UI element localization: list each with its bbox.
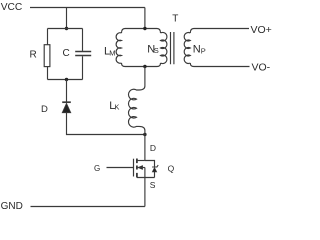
node RC box top junction <box>65 27 68 30</box>
MOSFET channel bars <box>136 159 138 178</box>
svg-text:D: D <box>41 104 48 115</box>
wire RC box left (resistor branch) <box>47 29 49 80</box>
svg-text:Q: Q <box>168 164 175 174</box>
wire RC box bottom <box>48 79 83 81</box>
diode D triangle <box>62 103 71 112</box>
capacitor C plates <box>75 52 91 56</box>
MOSFET body/source middle horizontal <box>137 167 145 169</box>
svg-text:K: K <box>114 103 119 112</box>
wire RC box top <box>48 28 83 30</box>
diode D cathode bar <box>62 101 71 103</box>
body diode triangle <box>152 168 156 172</box>
svg-text:D: D <box>150 143 156 153</box>
wire RC box right (capacitor branch) <box>82 29 84 80</box>
MOSFET source horizontal <box>137 177 155 179</box>
svg-text:P: P <box>201 46 206 55</box>
wire VCC rail <box>30 7 145 9</box>
svg-text:M: M <box>109 48 115 57</box>
wire VO- lead <box>190 63 249 67</box>
inductor LM winding (magnetizing) <box>116 33 121 64</box>
node winding pair top junction <box>143 27 146 30</box>
wire VCC rail down to transformer primary top <box>144 8 146 29</box>
transformer core <box>171 32 174 64</box>
svg-text:VO+: VO+ <box>251 24 272 36</box>
MOSFET drain horizontal <box>137 160 145 162</box>
svg-text:T: T <box>172 14 178 25</box>
svg-text:S: S <box>150 180 156 190</box>
wire diode anode down and right to drain node <box>67 113 145 135</box>
wire VCC tap down to RC snubber <box>66 8 68 29</box>
svg-text:R: R <box>30 50 37 61</box>
wire source to GND rail <box>144 178 146 207</box>
svg-text:C: C <box>63 48 70 59</box>
MOSFET body arrow <box>138 166 143 170</box>
wire gate lead <box>107 167 134 169</box>
wire VO+ lead <box>190 29 249 34</box>
svg-text:VO-: VO- <box>252 61 271 73</box>
wire winding pair bottom <box>122 63 161 67</box>
wire winding pair top <box>122 29 161 34</box>
wire middle tie to source <box>144 168 146 178</box>
node RC box bottom junction <box>65 78 68 81</box>
wire LK bottom to drain node <box>144 131 146 135</box>
MOSFET gate bar <box>133 159 135 177</box>
body diode branch top <box>145 161 155 168</box>
body diode branch bottom <box>154 172 156 178</box>
wire RC bottom to diode cathode <box>66 80 68 102</box>
inductor LK winding (leakage) <box>128 86 144 131</box>
wire drain node to MOSFET drain <box>144 135 146 161</box>
winding NS (primary) <box>161 32 167 63</box>
svg-text:N: N <box>193 44 201 56</box>
node drain junction <box>143 133 146 136</box>
svg-text:S: S <box>154 46 159 55</box>
resistor R <box>44 45 50 67</box>
wire GND rail <box>31 206 145 208</box>
svg-text:GND: GND <box>1 201 23 212</box>
node winding pair bottom junction <box>143 65 146 68</box>
wire NS bottom to leakage inductor <box>144 67 146 87</box>
svg-text:G: G <box>94 164 100 173</box>
svg-text:VCC: VCC <box>1 2 23 13</box>
winding NP (secondary) <box>184 33 190 64</box>
body diode cathode bar <box>152 165 158 167</box>
